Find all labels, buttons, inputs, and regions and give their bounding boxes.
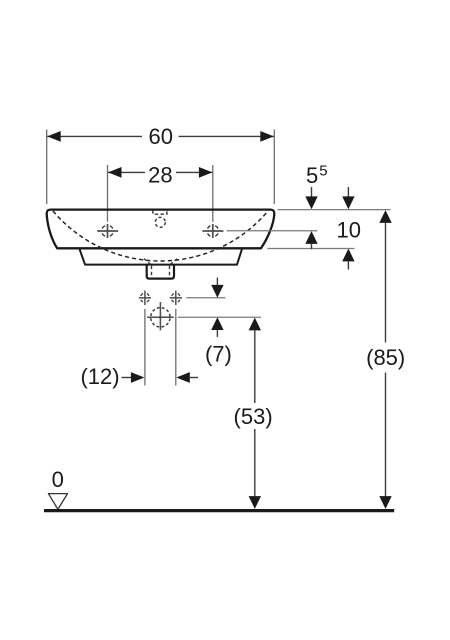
tap hole left crosshair horizontal <box>97 230 118 232</box>
siphon crosshair horizontal <box>147 316 174 318</box>
dimension line 28 right segment <box>176 171 212 173</box>
dim 5^5 lower arrow <box>305 231 317 244</box>
dim (7) lower arrow <box>211 317 223 330</box>
svg-text:(85): (85) <box>366 345 405 370</box>
fixing hole left crosshair horizontal <box>139 297 151 299</box>
dim (12) left arrow stem <box>122 377 133 379</box>
fixing hole right crosshair vertical <box>175 291 177 305</box>
dim (7) upper arrow <box>211 285 223 298</box>
dim (12) right arrow <box>176 372 190 383</box>
datum level triangle <box>48 494 67 510</box>
reference line basin bottom level <box>268 248 355 250</box>
dim (12) right arrow stem <box>190 377 198 379</box>
dim 10 upper arrow stem <box>347 187 349 198</box>
reference line tap hole level <box>227 230 318 232</box>
hidden bowl rim arc <box>53 211 268 261</box>
reference line fixing hole level <box>186 297 225 299</box>
extension line right fixing hole <box>175 309 177 386</box>
fixing hole right crosshair horizontal <box>170 297 182 299</box>
dimension line 28 left segment <box>108 171 145 173</box>
dim (53) line upper segment <box>254 330 256 403</box>
dim 5^5 upper arrow stem <box>311 187 313 198</box>
hidden drain pipe right edge <box>169 266 171 278</box>
dim (53) line lower segment <box>254 429 256 497</box>
dim (53) top arrow <box>249 318 261 331</box>
svg-text:60: 60 <box>149 124 173 149</box>
dim 10 lower arrow stem <box>347 261 349 269</box>
extension line left of dim 60 <box>46 130 48 205</box>
arrow right of dim 60 <box>260 131 274 142</box>
dim (85) line upper segment <box>385 223 387 343</box>
dimension line 60 left segment <box>47 135 142 137</box>
reference line siphon level <box>178 316 261 318</box>
svg-text:(53): (53) <box>234 404 273 429</box>
extension line right of dim 28 <box>212 165 214 222</box>
extension line right of dim 60 <box>273 130 275 205</box>
fixing hole right dashed circle <box>172 294 180 302</box>
dim (12) left arrow <box>131 372 145 383</box>
dim 5^5 upper arrow <box>305 196 317 209</box>
overflow slot dashed rectangle <box>153 210 167 214</box>
floor line <box>44 509 394 512</box>
fixing hole left dashed circle <box>141 294 149 302</box>
tap hole left crosshair vertical <box>107 224 109 238</box>
svg-text:(7): (7) <box>205 342 232 367</box>
overflow hole dashed circle <box>155 217 165 227</box>
dim (85) line lower segment <box>385 373 387 498</box>
arrow left of dim 60 <box>47 131 61 142</box>
arrow right of dim 28 <box>199 167 213 178</box>
extension line left fixing hole <box>144 309 146 386</box>
dim (53) bottom arrow <box>249 496 261 509</box>
extension line left of dim 28 <box>107 165 109 222</box>
siphon outlet center dot <box>159 316 162 319</box>
svg-text:5: 5 <box>306 163 318 188</box>
svg-text:0: 0 <box>52 467 64 492</box>
svg-text:5: 5 <box>319 162 327 179</box>
siphon crosshair vertical <box>159 302 161 330</box>
svg-text:28: 28 <box>148 162 172 187</box>
dim (85) bottom arrow <box>379 496 391 509</box>
washbasin lower step <box>80 249 243 265</box>
washbasin body outline <box>47 210 275 249</box>
dim (7) lower arrow stem <box>216 330 218 337</box>
drain trap outlet <box>147 265 174 279</box>
hidden drain pipe left edge <box>151 266 153 278</box>
dim 10 lower arrow <box>342 249 354 262</box>
svg-text:(12): (12) <box>80 364 119 389</box>
dim 5^5 lower arrow stem <box>311 244 313 250</box>
reference line rim level <box>278 209 391 211</box>
hidden bowl funnel right slant <box>170 259 178 265</box>
svg-text:10: 10 <box>336 217 360 242</box>
tap hole left dashed circle <box>102 226 113 237</box>
dim (85) top arrow <box>379 210 391 223</box>
tap hole right crosshair vertical <box>212 224 214 238</box>
hidden bowl funnel left slant <box>144 259 152 265</box>
dim (7) upper arrow stem <box>216 278 218 287</box>
tap hole right crosshair horizontal <box>203 230 224 232</box>
tap hole right dashed circle <box>208 226 219 237</box>
dim 10 upper arrow <box>342 196 354 209</box>
arrow left of dim 28 <box>108 167 122 178</box>
siphon outlet dashed circle <box>151 308 170 327</box>
fixing hole left crosshair vertical <box>144 291 146 305</box>
dimension line 60 right segment <box>179 135 274 137</box>
